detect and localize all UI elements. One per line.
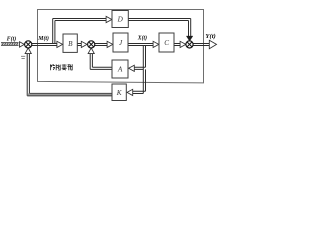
svg-text:F(t): F(t): [7, 35, 16, 42]
svg-text:X(t): X(t): [137, 34, 147, 41]
svg-text:B: B: [68, 40, 73, 48]
svg-text:C: C: [164, 39, 169, 47]
svg-text:M(t): M(t): [37, 35, 49, 42]
svg-text:D: D: [117, 16, 124, 24]
svg-text:Y(t): Y(t): [205, 33, 215, 40]
svg-text:A: A: [117, 66, 123, 74]
